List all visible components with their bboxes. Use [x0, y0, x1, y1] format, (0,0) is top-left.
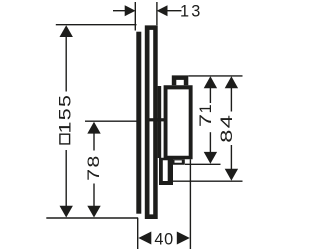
- ext line plate bottom: [46, 217, 138, 219]
- ext line handle front: [189, 159, 191, 249]
- arrow 155 bottom: [60, 206, 73, 218]
- dim line upper: [209, 86, 211, 103]
- dimension 78: [85, 121, 138, 209]
- lower outlet box: [159, 158, 173, 185]
- ext line wall face: [134, 2, 136, 31]
- svg-text:84: 84: [219, 114, 237, 143]
- handle flange: [158, 86, 162, 158]
- arrow 78 bottom: [87, 206, 100, 218]
- ext line plate top: [56, 24, 137, 26]
- arrow 40 left: [138, 232, 151, 245]
- tail left: [113, 10, 126, 12]
- svg-text:78: 78: [85, 154, 103, 181]
- dimension 84: [173, 86, 243, 181]
- dim line upper: [93, 130, 95, 151]
- dimension 71: [185, 76, 243, 164]
- dim line upper: [65, 34, 67, 92]
- dimension 40: [138, 159, 191, 249]
- svg-text:155: 155: [57, 94, 75, 134]
- handle body U1: [164, 85, 193, 159]
- arrow 155 top: [60, 25, 73, 37]
- arrow 78 top: [87, 122, 100, 134]
- ext line outlet bottom: [173, 180, 243, 182]
- svg-text:1: 1: [197, 104, 215, 113]
- ext line handle top: [188, 75, 242, 77]
- arrow 84 bottom: [225, 169, 238, 181]
- label square155: [57, 94, 75, 144]
- svg-text:40: 40: [154, 230, 174, 248]
- ext line plate back: [137, 218, 139, 249]
- ext line plate front: [156, 2, 158, 25]
- arrow 71 top: [204, 76, 217, 88]
- svg-text:13: 13: [180, 2, 203, 20]
- ext line handle axis: [85, 120, 138, 122]
- top button: [172, 75, 189, 85]
- arrow 71 bottom: [204, 152, 217, 164]
- arrow 40 right: [177, 232, 190, 245]
- arrow 84 top: [225, 76, 238, 88]
- arrow 13 right: [157, 5, 168, 16]
- dim line lower: [230, 145, 232, 171]
- dimension square155: [46, 25, 138, 218]
- valve stem: [149, 118, 164, 121]
- front cover plate outline: [145, 25, 158, 219]
- bottom button: [172, 159, 185, 165]
- svg-text:7: 7: [197, 114, 215, 127]
- dim line upper: [230, 86, 232, 112]
- dim line lower: [209, 132, 211, 154]
- dimension 13: [113, 2, 182, 31]
- dim line lower: [65, 150, 67, 209]
- wall plate back bar: [136, 32, 141, 214]
- ext line handle bottom: [185, 163, 221, 165]
- tail right: [167, 10, 182, 12]
- arrow 13 left: [125, 5, 136, 16]
- dim line lower: [93, 184, 95, 210]
